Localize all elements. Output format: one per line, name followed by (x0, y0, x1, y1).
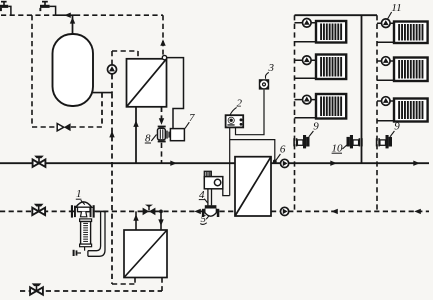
pump: radiator R3 circulator (382, 97, 391, 106)
cable: controller 2 branch to supply sensor (230, 140, 275, 161)
return pump (281, 207, 289, 215)
wire: supply main left section (0, 162, 235, 164)
wire: U2 left port up to return (135, 211, 137, 230)
wire: radiator L1 connection stubs (295, 22, 317, 24)
wire: loop riser to tank bottom x=102 (101, 93, 103, 127)
faucet W1 (draw-off tap, left edge) (0, 1, 11, 15)
arrow: return flow left (mid) (331, 209, 338, 214)
radiator R2 (394, 58, 428, 82)
heat exchanger U1 (127, 59, 167, 107)
wire: radiator R3 connection stubs (377, 100, 394, 102)
arrow: supply flow right (mid) (330, 161, 337, 166)
check valve (non-return) on loop (57, 123, 70, 131)
radiator L2 (316, 55, 346, 80)
svg-text:1: 1 (76, 188, 82, 200)
svg-text:11: 11 (391, 2, 401, 14)
arrow: supply flow right (end) (413, 161, 420, 166)
controller 2 (regulator unit) (226, 115, 244, 127)
pump 6 on supply main (281, 159, 289, 167)
arrow: down into pump 8 (159, 118, 164, 125)
node: vent connection circle at U1 top-right (162, 55, 166, 59)
wire: tank outlet horizontal (92, 92, 112, 94)
wire: return main dashed left section (0, 210, 202, 212)
wire: make-up top line dashed left segment (1, 14, 56, 16)
heat exchanger U2 (124, 230, 167, 278)
node: supply temperature sensor dot (273, 160, 277, 164)
regulator 1 spring coil (83, 223, 88, 241)
arrow: up on riser x=112 (109, 131, 114, 138)
wire: U2 bottom-right port down to drain line (161, 278, 163, 292)
outdoor sensor 3 (259, 79, 269, 89)
wire: top distribution header (295, 14, 378, 16)
wire: U1 right loop to pump 7/8 (167, 58, 184, 129)
control valve 5 (202, 205, 219, 217)
svg-text:6: 6 (280, 143, 286, 155)
pump: radiator R2 circulator (382, 57, 391, 66)
wire: riser C dashed x=377 (376, 15, 378, 211)
wire: expansion dashed riser x=163 (162, 15, 164, 54)
wire: radiator R2 connection stubs (377, 60, 394, 62)
regulator 1 bottom outlet and impulse U-pipe (73, 212, 105, 256)
faucet W2 (draw-off tap) (39, 1, 55, 15)
pressure regulator 1 (direct acting) (71, 202, 95, 247)
pump: radiator L1 circulator (303, 19, 312, 28)
svg-text:5: 5 (200, 213, 206, 225)
arrow: up into U1 (133, 120, 138, 127)
arrow: up on expansion riser (160, 39, 165, 46)
wire: make-up top line solid segment with flow arrow (56, 14, 75, 16)
svg-text:2: 2 (236, 97, 242, 109)
wire: U1 left port down to supply main (135, 107, 137, 163)
gate valve on supply main (33, 160, 39, 167)
wire: riser A dashed x=294.5 (294, 15, 296, 211)
balancing valve 9 (right riser) (376, 135, 392, 148)
wire: tank riser to make-up line (72, 15, 74, 35)
wire: supply main right section (271, 162, 429, 164)
wire: bottom dashed drain line (20, 290, 162, 292)
cable: controller 2 to actuator 4 (229, 128, 231, 196)
heat exchanger U3 (main) (235, 157, 271, 216)
gate valve on return main (32, 208, 38, 215)
svg-text:7: 7 (189, 112, 195, 124)
svg-text:9: 9 (313, 121, 319, 133)
wire: U2 right port down from junction (160, 211, 162, 230)
wire: check-valve loop horizontal dashed (32, 126, 57, 128)
wire: radiator R1 connection stubs (377, 22, 394, 24)
balancing valve 10 (middle riser) (347, 135, 363, 148)
pump (circulation, to boiler HX U1) (108, 65, 117, 74)
wire: pump suction/discharge dashed (111, 74, 113, 93)
arrow: return flow left (end) (414, 209, 421, 214)
wire: left vertical dashed riser x=32 (31, 15, 33, 127)
arrow: up out of U2 (133, 214, 138, 221)
expansion tank (53, 34, 94, 106)
radiator R3 (394, 99, 428, 122)
arrow: return flow left before control valve (194, 209, 201, 214)
pump: radiator L2 circulator (303, 56, 312, 65)
wire: below pump 8 dashed to supply main (161, 143, 163, 163)
radiator L1 (316, 21, 346, 43)
radiator R1 (394, 22, 428, 44)
arrow: flow left on make-up line (64, 13, 71, 18)
pump: radiator R1 circulator (382, 19, 391, 28)
pump 8 (inline circulator) (158, 126, 170, 143)
shut-off valve (filled) on return bypass (143, 205, 156, 216)
wire: riser B solid x=361.5 (361, 15, 363, 163)
wire: return solid stub after regulator (96, 210, 107, 212)
node: junction dot on return (159, 210, 163, 214)
wire: return main dashed right section (220, 210, 236, 212)
arrow: up into make-up line (70, 17, 75, 24)
wire: U1 right port dashed down to pump 8 (161, 107, 163, 120)
cable: sensor 3 to controller 2 (236, 90, 265, 135)
wire: long dashed riser x=112 down to HX2 bottom (111, 93, 113, 284)
arrow: down into U2 (158, 219, 163, 226)
wire: make-up top line dashed right segment (75, 14, 163, 16)
pump: radiator L3 circulator (303, 95, 312, 104)
wire: radiator L2 connection stubs (295, 59, 317, 61)
arrow: supply flow right (170, 161, 177, 166)
wire: radiator L3 connection stubs (295, 99, 317, 101)
actuator 4 (electric drive) (204, 171, 223, 205)
radiator L3 (316, 94, 346, 119)
wire: actuator foot link to controller cable (223, 189, 230, 196)
svg-text:9: 9 (394, 121, 400, 133)
balancing valve 9 (left riser) (293, 135, 309, 148)
gate valve on bottom drain line (30, 287, 36, 294)
motor box 7 (170, 129, 184, 141)
